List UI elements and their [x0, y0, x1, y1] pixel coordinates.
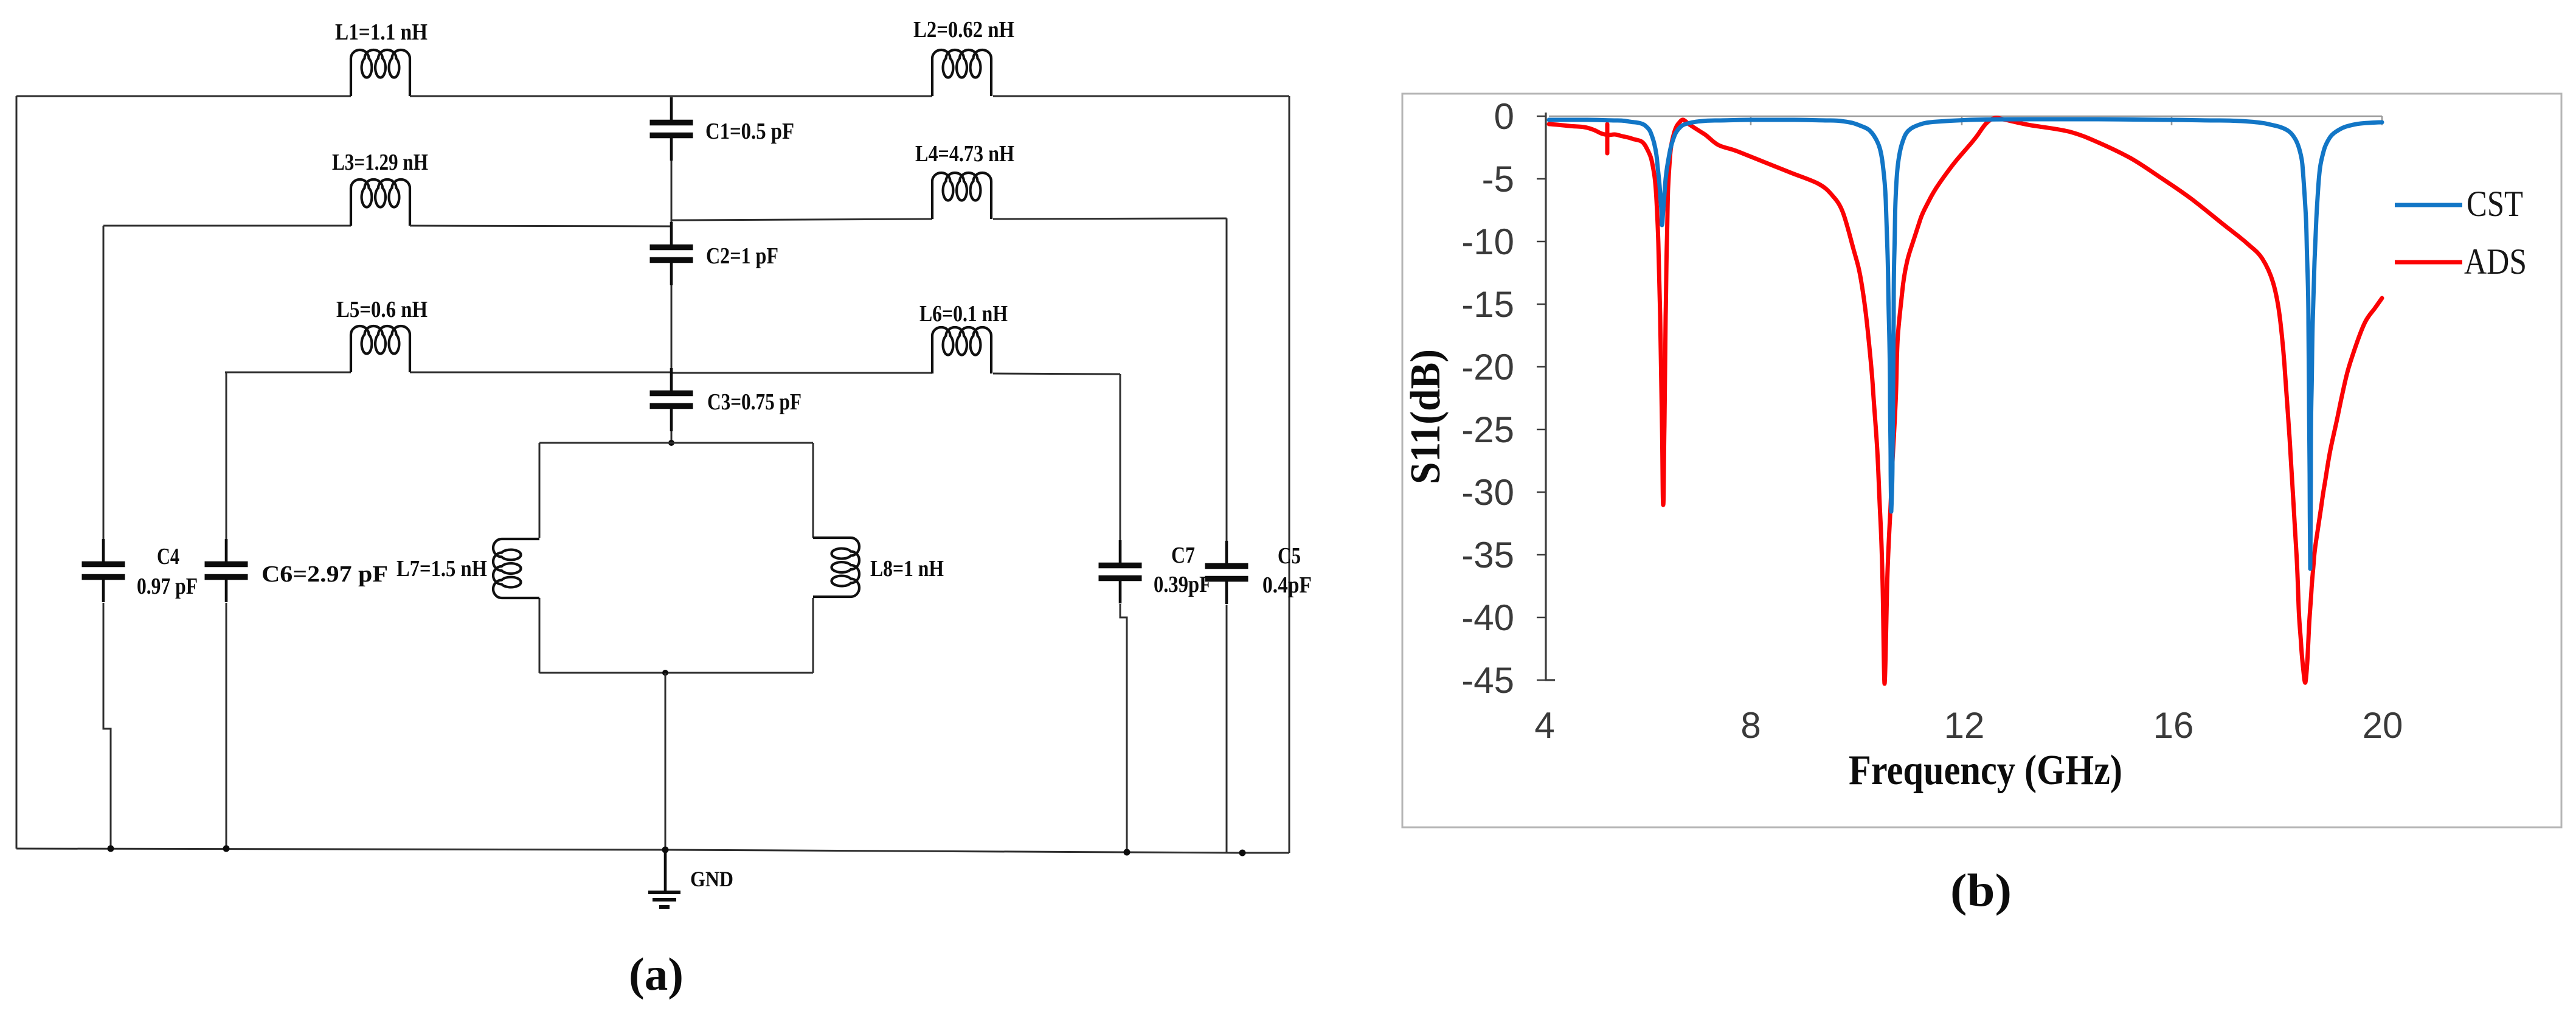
wire v5 vertical above C5	[1226, 218, 1228, 541]
wire node B to L4	[671, 219, 932, 220]
svg-text:8: 8	[1740, 705, 1761, 746]
wire C3 to box top	[671, 431, 673, 443]
svg-text:16: 16	[2153, 705, 2194, 746]
chart frame	[1402, 94, 2561, 827]
capacitor C5=0.4pF	[1205, 541, 1248, 604]
wire node C to L6	[671, 372, 932, 374]
wire C1 to row2 node	[671, 161, 673, 226]
inductor L1	[351, 50, 410, 96]
svg-text:L2=0.62 nH: L2=0.62 nH	[913, 17, 1014, 43]
wire row3 left corner to L5	[225, 372, 351, 373]
curve CST (blue)	[1549, 119, 2382, 569]
svg-text:4: 4	[1534, 705, 1554, 746]
wire v4 below C7 with jog	[1120, 604, 1127, 852]
wire L2 to right corner	[993, 96, 1289, 97]
svg-text:GND: GND	[690, 867, 733, 891]
inductor L8	[813, 538, 859, 597]
wire v2 below C4 with jog	[103, 603, 111, 849]
inductor L5	[351, 326, 410, 372]
wire v5 below C5	[1226, 605, 1228, 853]
svg-text:L3=1.29 nH: L3=1.29 nH	[332, 150, 428, 175]
svg-text:L7=1.5 nH: L7=1.5 nH	[396, 556, 487, 582]
svg-text:L5=0.6 nH: L5=0.6 nH	[336, 297, 428, 322]
svg-text:-45: -45	[1461, 660, 1514, 701]
wire box bottom to ground bus	[665, 673, 667, 850]
node bus-v4 junction	[1124, 849, 1130, 856]
wire L1 to L2	[410, 96, 932, 97]
svg-text:C1=0.5 pF: C1=0.5 pF	[705, 119, 794, 144]
inductor L4	[932, 173, 991, 219]
svg-text:(b): (b)	[1950, 865, 2012, 916]
legend CST sample line	[2395, 203, 2462, 207]
wire L5 to node C	[410, 372, 671, 373]
wire box left edge lower	[539, 598, 541, 673]
svg-text:-15: -15	[1461, 284, 1514, 325]
svg-text:C2=1 pF: C2=1 pF	[706, 243, 778, 269]
wire v4 vertical above C7	[1120, 374, 1121, 540]
chart y axis	[1546, 113, 1555, 680]
inductor L2	[932, 50, 991, 96]
node box-bottom junction	[662, 670, 668, 676]
svg-text:-10: -10	[1461, 221, 1514, 262]
chart y tick marks	[1537, 116, 1546, 680]
svg-text:(a): (a)	[629, 949, 684, 1000]
curve ADS (red)	[1549, 118, 2382, 684]
svg-text:-20: -20	[1461, 347, 1514, 387]
ground GND	[648, 850, 680, 907]
wire box right edge upper	[812, 443, 814, 538]
node box-top junction	[668, 440, 674, 446]
capacitor C3=0.75pF	[650, 368, 693, 431]
node bus-center junction	[662, 847, 669, 853]
svg-text:C6=2.97 pF: C6=2.97 pF	[261, 561, 388, 587]
svg-text:20: 20	[2363, 705, 2403, 746]
capacitor C2=1pF	[650, 222, 693, 285]
wire right outer vertical	[1289, 96, 1290, 853]
curve ADS glitch tick (red)	[1605, 124, 1610, 153]
wire bottom ground bus	[16, 849, 1289, 853]
wire v3 vertical above C6	[226, 372, 227, 539]
svg-text:-30: -30	[1461, 472, 1514, 513]
svg-text:-25: -25	[1461, 409, 1514, 450]
svg-text:ADS: ADS	[2464, 241, 2527, 282]
wire box right edge lower	[812, 598, 814, 673]
inductor L7	[493, 539, 539, 598]
capacitor C1=0.5pF	[650, 97, 693, 161]
svg-text:12: 12	[1944, 705, 1985, 746]
node bus-v3 junction	[223, 846, 230, 852]
legend ADS sample line	[2395, 260, 2462, 265]
svg-text:0.4pF: 0.4pF	[1262, 572, 1312, 598]
wire row2 left corner to L3	[103, 225, 351, 227]
capacitor C4=0.97pF	[82, 539, 125, 602]
wire box bottom edge	[539, 672, 813, 674]
wire v3 below C6	[226, 603, 227, 849]
svg-text:C7: C7	[1171, 543, 1195, 568]
wire v2 vertical through C4	[103, 226, 105, 539]
wire left outer vertical	[16, 96, 18, 849]
svg-text:L8=1 nH: L8=1 nH	[870, 556, 944, 582]
svg-text:C3=0.75 pF: C3=0.75 pF	[707, 389, 802, 415]
wire L6 to right corner v4	[993, 373, 1120, 374]
wire L3 to node B	[410, 226, 671, 226]
wire box left edge upper	[539, 443, 541, 538]
svg-text:S11(dB): S11(dB)	[1402, 349, 1449, 484]
svg-text:0: 0	[1494, 96, 1514, 137]
svg-text:CST: CST	[2467, 184, 2523, 224]
svg-text:L6=0.1 nH: L6=0.1 nH	[919, 301, 1008, 327]
svg-text:-40: -40	[1461, 597, 1514, 638]
capacitor C6=2.97pF	[205, 539, 248, 602]
node bus-v5 junction	[1239, 850, 1246, 856]
chart x tick marks	[1751, 116, 2382, 125]
svg-text:C4: C4	[157, 544, 179, 569]
wire L4 to right corner v5	[993, 218, 1227, 219]
chart zero gridline	[1549, 116, 2382, 117]
inductor L3	[351, 179, 410, 226]
svg-text:0.97 pF: 0.97 pF	[137, 574, 198, 599]
inductor L6	[932, 327, 991, 373]
svg-text:L1=1.1 nH: L1=1.1 nH	[335, 19, 428, 45]
svg-text:C5: C5	[1278, 543, 1301, 569]
svg-text:Frequency (GHz): Frequency (GHz)	[1849, 747, 2122, 794]
wire top-left (input to L1)	[16, 96, 351, 97]
wire C2 to row3 node	[671, 285, 673, 373]
svg-text:-35: -35	[1461, 535, 1514, 575]
capacitor C7=0.39pF	[1099, 540, 1142, 603]
svg-text:-5: -5	[1482, 159, 1514, 200]
svg-text:L4=4.73 nH: L4=4.73 nH	[915, 141, 1014, 167]
node bus-v2 junction	[108, 846, 114, 852]
wire box top edge	[539, 442, 813, 444]
svg-text:0.39pF: 0.39pF	[1154, 572, 1211, 597]
